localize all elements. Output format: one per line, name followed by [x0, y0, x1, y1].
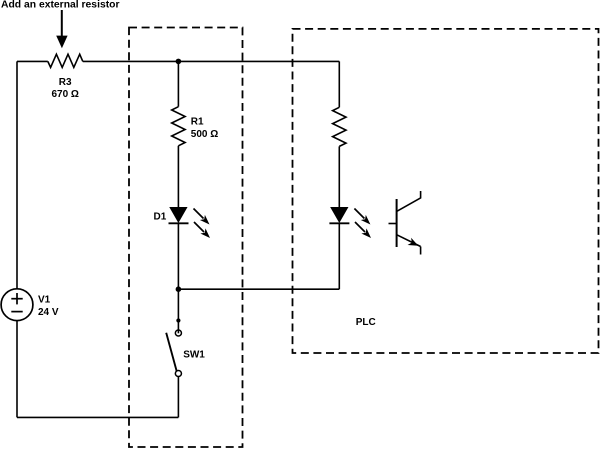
annotation arrow — [56, 10, 67, 48]
resistor (PLC input) — [333, 107, 346, 146]
LED D1 — [169, 208, 189, 224]
dashed box: switch/LED sub-circuit — [129, 28, 243, 448]
dot above switch terminal — [176, 318, 180, 322]
svg-text:D1: D1 — [154, 212, 167, 223]
D1 light arrow 1 — [194, 209, 210, 225]
opto LED light arrow 2 — [355, 222, 371, 238]
phototransistor — [389, 191, 421, 255]
voltage source V1 — [1, 289, 33, 321]
svg-text:R3: R3 — [59, 77, 72, 88]
wire: middle horizontal (mid node to PLC branch) — [178, 288, 339, 290]
svg-text:V1: V1 — [38, 294, 51, 305]
wire: left vertical lower (V1 to bottom) — [16, 321, 18, 418]
wire: R1 to D1 — [177, 146, 179, 208]
wire: mid junction down to switch top — [177, 289, 179, 333]
resistor R3 — [48, 54, 83, 67]
wire: PLC resistor to opto LED — [338, 146, 340, 207]
wire: top node to R1 — [177, 61, 179, 106]
wire: PLC branch top vertical — [338, 61, 340, 107]
switch SW1 — [166, 330, 181, 377]
svg-text:24 V: 24 V — [38, 307, 59, 318]
base bar — [396, 199, 398, 247]
collector — [397, 191, 421, 211]
svg-text:500 Ω: 500 Ω — [191, 129, 218, 140]
svg-text:PLC: PLC — [356, 317, 376, 328]
wire: left vertical upper (top wire to V1) — [16, 61, 18, 288]
opto LED light arrow 1 — [354, 209, 370, 225]
svg-text:Add an external resistor: Add an external resistor — [1, 0, 120, 10]
optocoupler LED — [329, 208, 349, 224]
D1 light arrow 2 — [194, 222, 210, 238]
wire: D1 to mid node — [177, 223, 179, 289]
wire: bottom horizontal — [17, 416, 178, 418]
wire: opto LED to bottom of PLC branch — [338, 223, 340, 289]
resistor R1 — [172, 107, 185, 146]
svg-text:670 Ω: 670 Ω — [51, 89, 78, 100]
junction dot: top node at R1 branch — [176, 59, 182, 65]
dashed box: PLC — [293, 29, 599, 353]
emitter with arrow — [397, 235, 421, 247]
svg-text:R1: R1 — [191, 116, 204, 127]
wire: switch bottom to bottom wire — [177, 377, 179, 418]
svg-text:SW1: SW1 — [183, 349, 205, 360]
wire: top horizontal left of R3 — [17, 60, 48, 62]
wire: top horizontal right of R3 — [83, 60, 340, 62]
base stub — [389, 223, 397, 225]
junction dot: mid node — [176, 286, 182, 292]
